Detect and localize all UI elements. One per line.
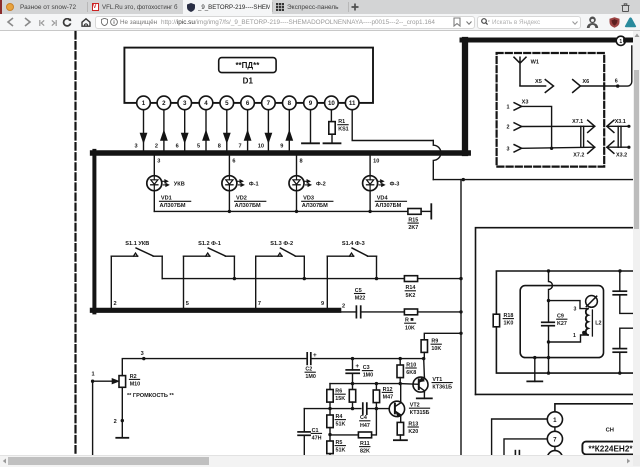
detector block bottom edge y394.4	[476, 393, 640, 395]
svg-text:K27: K27	[557, 321, 567, 327]
svg-text:51K: 51K	[336, 422, 346, 428]
wire hop over thick bus	[433, 141, 441, 180]
svg-text:8: 8	[288, 100, 292, 107]
svg-text:H47: H47	[360, 423, 370, 429]
capacitor C2 polarized	[306, 353, 308, 365]
wire pin 1 to bus	[143, 110, 145, 151]
edge capacitor upper	[619, 271, 621, 291]
junction dot VD2 common	[228, 210, 231, 213]
svg-text:S1.2 Ф-1: S1.2 Ф-1	[198, 241, 221, 247]
LED VD2 АЛ307БМ	[222, 176, 237, 191]
svg-text:9: 9	[309, 100, 313, 107]
svg-text:6K8: 6K8	[406, 370, 416, 376]
wire pin 2 to bus	[163, 110, 165, 151]
connector X7.1 arrowhead	[588, 120, 595, 132]
wire C3 to base node	[352, 373, 354, 383]
svg-text:W1: W1	[531, 60, 539, 66]
wire R10 dot to R9 dot	[400, 358, 424, 360]
tab 3 shield favicon	[187, 3, 195, 12]
wire switch right leg down	[161, 256, 163, 278]
tab 4 grid favicon	[276, 3, 284, 11]
svg-text:** ГРОМКОСТЬ **: ** ГРОМКОСТЬ **	[127, 393, 175, 399]
dashed box around antenna connectors	[497, 53, 605, 167]
wire pin 6 to bus	[247, 110, 249, 151]
potentiometer R2 body	[119, 376, 126, 388]
wire pin1 net to right edge y403.8	[555, 404, 640, 412]
wire C4 to base dot	[367, 408, 391, 410]
svg-text:10: 10	[328, 100, 335, 107]
node 2 dot	[121, 419, 124, 422]
junction dot R4 bottom	[329, 428, 331, 435]
svg-text:9: 9	[280, 144, 283, 150]
connector X6 arrow	[573, 80, 581, 93]
pin 9 of D1	[304, 96, 318, 110]
junction dot C9 bottom	[547, 340, 550, 343]
svg-text:VD4: VD4	[377, 196, 389, 202]
pot wiper arrow to R2	[93, 380, 113, 382]
svg-text:11: 11	[349, 100, 356, 107]
svg-text:2: 2	[507, 124, 510, 130]
wire R2 bottom to node 2	[121, 387, 123, 420]
capacitor C1	[303, 409, 305, 432]
wire switch left leg to bus terminal 5	[183, 256, 185, 308]
connector X7 double bars	[580, 126, 582, 147]
svg-text:9: 9	[321, 301, 324, 307]
wire node 6 hook up right edge	[618, 46, 632, 86]
svg-text:6: 6	[176, 144, 179, 150]
pin 7 of D1	[262, 96, 276, 110]
wire R9 to supply rail	[423, 352, 425, 358]
wire C9 bottom	[548, 327, 550, 342]
wire LED VD4 to common line	[369, 191, 371, 212]
capacitor C3 polarized	[352, 359, 354, 370]
connector pin circle 7	[547, 431, 562, 446]
junction dot rail bottom right	[618, 371, 621, 374]
capacitor C5	[341, 311, 356, 313]
svg-text:3: 3	[183, 100, 187, 107]
svg-text:1: 1	[91, 371, 94, 377]
transistor VT1 КТ361Б	[413, 377, 428, 392]
wire circle7 to left column	[504, 439, 547, 455]
svg-text:7: 7	[553, 436, 557, 443]
resistor R9	[421, 340, 427, 353]
arrow down on pin 3 wire	[182, 133, 188, 142]
transistor VT2 КТ315Б	[389, 401, 404, 416]
svg-text:S1.3 Ф-2: S1.3 Ф-2	[270, 241, 293, 247]
wire LED VD1 to common line	[153, 191, 155, 212]
svg-text:7: 7	[258, 301, 261, 307]
magnifier icon	[481, 18, 490, 26]
fastforward icon	[51, 20, 57, 26]
wire pin 10 to R1	[330, 110, 332, 122]
wire VT1 base	[400, 383, 419, 386]
connector pin circle 1	[547, 412, 562, 427]
wire to R9 top	[424, 333, 461, 340]
svg-text:АЛ307БМ: АЛ307БМ	[160, 203, 186, 209]
resistor R1	[329, 122, 335, 135]
svg-text:3: 3	[134, 144, 137, 150]
arrow up on pin 2 wire	[161, 131, 167, 140]
svg-text:1M0: 1M0	[363, 373, 374, 379]
wire to coil top	[549, 301, 589, 309]
pin 1 of D1	[137, 96, 151, 110]
svg-text:1: 1	[507, 104, 510, 110]
tank ground stem	[534, 358, 536, 382]
label box **ПД**	[219, 58, 276, 73]
thick top line stub right of circle	[626, 38, 633, 43]
vpn triangle icon	[624, 17, 637, 28]
browser tab bar	[0, 0, 640, 14]
thick top supply line y40	[462, 38, 616, 43]
arrow up on pin 6 wire	[244, 131, 250, 140]
wire switch right leg down	[376, 256, 378, 278]
url info icon	[110, 18, 118, 26]
svg-text:7: 7	[267, 100, 271, 107]
svg-text:**ПД**: **ПД**	[235, 61, 260, 70]
LED VD2 emission arrows	[237, 180, 240, 182]
svg-text:X3.1: X3.1	[615, 119, 626, 125]
bookmark flag icon	[453, 17, 461, 27]
link circle7 to circle5	[554, 447, 556, 451]
block name box К224ЕН2	[582, 442, 640, 455]
resistor R*	[404, 309, 417, 315]
URL field	[95, 16, 475, 29]
svg-text:M47: M47	[383, 394, 394, 400]
wire X3.2 to edge dot	[607, 146, 629, 148]
svg-text:Ф-1: Ф-1	[249, 182, 259, 188]
terminal circle 1 on top line	[616, 36, 625, 45]
svg-text:6: 6	[615, 79, 618, 85]
resistor R14	[404, 276, 417, 282]
terminal bar under R1	[324, 142, 341, 144]
svg-text:КТ361Б: КТ361Б	[432, 385, 452, 391]
connector pin circle 5	[547, 451, 562, 466]
resistor R6	[327, 390, 333, 403]
L2 core line	[591, 310, 593, 336]
svg-text:КТ315Б: КТ315Б	[410, 410, 430, 416]
wire LED VD3 to common line	[296, 191, 298, 212]
wire pin 9 down	[310, 110, 312, 144]
svg-text:10: 10	[258, 144, 264, 150]
svg-text:M22: M22	[355, 296, 366, 302]
ground below node 2	[121, 421, 123, 438]
arrow down on pin 1 wire	[140, 133, 146, 142]
pin 6 of D1	[241, 96, 255, 110]
capacitor C9	[548, 301, 550, 322]
svg-text:2: 2	[155, 144, 158, 150]
search field	[477, 16, 581, 29]
svg-text:5: 5	[225, 100, 229, 107]
wire circle1 to left column	[492, 419, 548, 455]
arrow up on pin 4 wire	[203, 131, 209, 140]
svg-text:1: 1	[619, 39, 622, 45]
svg-text:4: 4	[204, 100, 208, 107]
LED VD3 emission arrows	[305, 180, 308, 182]
IC D1 outline box	[124, 48, 373, 103]
junction dot VD4 common	[368, 210, 371, 213]
junction dot R10 top	[399, 357, 402, 360]
wire VT2 collector up	[400, 384, 402, 402]
resistor R10	[399, 359, 401, 365]
svg-text:VD3: VD3	[303, 196, 314, 202]
wire R5 bottom down	[329, 454, 331, 455]
resistor R13	[397, 422, 403, 435]
svg-text:D1: D1	[243, 76, 254, 85]
junction dot C4/R12/R11	[375, 407, 378, 410]
link circle1 to circle7	[554, 427, 556, 431]
svg-text:2: 2	[114, 301, 117, 307]
svg-text:8: 8	[300, 159, 303, 165]
svg-text:KS1: KS1	[338, 127, 349, 133]
wire bus to LED VD2	[228, 156, 230, 176]
junction dot R9/VT1	[422, 357, 425, 360]
svg-text:8: 8	[218, 144, 221, 150]
capacitor at circle5 line	[514, 451, 516, 455]
wire node3 to R2 top	[122, 359, 144, 376]
svg-text:УКВ: УКВ	[174, 182, 185, 188]
junction dot rail top right	[618, 269, 621, 272]
wire hop to node	[433, 179, 463, 181]
thick shield bus top horizontal y153	[93, 150, 469, 156]
connector X7.2 arrowhead	[588, 141, 595, 153]
inner rail top y271	[496, 271, 633, 314]
LED VD1 emission arrows	[162, 180, 165, 182]
junction dot y383 C3	[351, 382, 354, 385]
url shield icon	[101, 18, 108, 26]
svg-text:СН: СН	[606, 428, 614, 434]
switch S1.4	[327, 255, 353, 257]
back arrow	[6, 17, 15, 27]
active tab	[183, 0, 272, 14]
wire switch left leg to bus terminal 7	[255, 256, 257, 308]
junction dot C3 tap	[351, 357, 354, 360]
svg-text:2: 2	[342, 303, 345, 309]
terminal bar under pin 9	[302, 142, 319, 144]
svg-text:1: 1	[553, 417, 557, 424]
connector X3.1 arrowhead	[607, 120, 614, 132]
wire VT1 collector to bar	[423, 392, 425, 398]
pin 11 of D1	[345, 96, 359, 110]
svg-text:47H: 47H	[312, 435, 322, 441]
svg-text:5: 5	[197, 144, 200, 150]
svg-text:1K0: 1K0	[504, 321, 514, 327]
ground bar in tank box	[527, 380, 542, 382]
wire C9 bottom to tank box bottom	[548, 342, 550, 358]
new tab +	[351, 3, 359, 11]
terminal bar under VT1	[417, 397, 432, 399]
wire pin 8 to bus	[288, 110, 290, 151]
switch S1.2	[184, 255, 210, 257]
junction dot rail bottom C9 column	[547, 371, 550, 374]
refresh icon	[62, 18, 72, 27]
svg-text:S1.4 Ф-3: S1.4 Ф-3	[342, 241, 365, 247]
pin 5 of D1	[220, 96, 234, 110]
svg-text:3: 3	[507, 147, 510, 153]
profile icon	[586, 16, 599, 28]
svg-text:M10: M10	[130, 381, 141, 387]
wire R* to node	[418, 311, 461, 313]
wire switch left leg to bus terminal 2	[110, 256, 112, 308]
tab 2 favicon	[92, 3, 99, 11]
LED VD1 АЛ307БМ	[147, 176, 162, 191]
home icon	[81, 18, 91, 27]
tab 1 favicon	[6, 3, 14, 11]
connector X3 right double bars	[617, 126, 619, 147]
resistor R15	[408, 209, 421, 215]
trash icon	[621, 3, 630, 12]
vertical net x461 from y180	[460, 180, 462, 455]
resistor R4	[329, 409, 331, 415]
connector X3.2 arrowhead	[607, 141, 614, 153]
terminal bar right of R15	[430, 204, 432, 218]
svg-text:X3.2: X3.2	[616, 153, 627, 159]
switch output line y278	[162, 278, 461, 280]
junction dot VT1 base node	[399, 382, 402, 385]
wire bus to LED VD4	[369, 156, 371, 176]
switch S1.1	[111, 255, 137, 257]
svg-text:АЛ307БМ: АЛ307БМ	[375, 203, 401, 209]
svg-text:Ф-2: Ф-2	[316, 182, 326, 188]
svg-text:2K7: 2K7	[408, 225, 418, 231]
horizontal scrollbar	[0, 455, 640, 467]
svg-text:15K: 15K	[335, 396, 345, 402]
svg-text:S1.1 УКВ: S1.1 УКВ	[125, 241, 149, 247]
node at x463 y180	[462, 178, 465, 181]
junction dot R* right	[459, 310, 462, 313]
junction dot R7 bottom	[351, 407, 354, 410]
wire X3 pin1 to junction	[522, 106, 552, 148]
wire C2 to C3 junction	[311, 358, 353, 360]
LED VD4 emission arrows	[378, 180, 381, 182]
resistor R7 middle	[352, 384, 354, 390]
junction dot tank box bottom	[547, 356, 550, 359]
junction dot S1.3 out	[303, 277, 306, 280]
junction dot y333	[459, 332, 462, 335]
junction dot C9 top	[547, 299, 550, 302]
junction dot VD3 common	[295, 210, 298, 213]
svg-text:X7.1: X7.1	[572, 119, 583, 125]
svg-text:1: 1	[573, 333, 576, 339]
node 6 dot	[616, 84, 619, 87]
svg-text:**К224ЕН2*: **К224ЕН2*	[588, 444, 633, 453]
svg-text:7: 7	[239, 144, 242, 150]
svg-text:10: 10	[373, 159, 379, 165]
wire R15 to terminal	[421, 210, 431, 212]
svg-text:X7.2: X7.2	[573, 153, 584, 159]
url dropdown caret	[466, 21, 472, 25]
resistor R5	[329, 435, 331, 441]
wire switch left leg to bus terminal 9	[326, 256, 328, 308]
inner rail bottom y373	[496, 327, 633, 373]
tank circuit box	[520, 286, 603, 358]
node 1 dot	[91, 380, 94, 383]
antenna W1	[514, 57, 526, 86]
resistor R18	[493, 314, 499, 327]
pin 2 of D1	[157, 96, 171, 110]
svg-text:+: +	[355, 363, 359, 370]
wire bus to LED VD3	[296, 156, 298, 176]
junction dot R12 top	[375, 382, 378, 385]
wire X6 to node 6	[580, 85, 617, 87]
wire pin 11 down and right	[352, 110, 433, 141]
thick shield left vertical x94.4	[92, 151, 96, 313]
LED common line to R15	[154, 210, 408, 212]
svg-text:1: 1	[142, 100, 146, 107]
svg-text:L2: L2	[595, 320, 601, 326]
wire tank bottom to rail	[548, 358, 550, 374]
wire LED VD2 to common line	[228, 191, 230, 212]
svg-text:X5: X5	[535, 79, 542, 85]
svg-text:3: 3	[141, 351, 144, 357]
junction dot X3 net	[550, 147, 553, 150]
wire R11 to C4 node	[372, 409, 377, 435]
svg-text:51K: 51K	[336, 448, 346, 454]
wire R1 to bar	[331, 134, 333, 143]
wire VT2 emitter to R13	[400, 416, 402, 422]
arrow down on pin 7 wire	[265, 133, 271, 142]
forward arrow	[23, 17, 32, 27]
svg-text:АЛ307БМ: АЛ307БМ	[302, 203, 328, 209]
junction dot R6 bottom	[328, 407, 331, 410]
pin 4 of D1	[199, 96, 213, 110]
schematic page left dashed border	[74, 32, 76, 454]
svg-text:X6: X6	[582, 79, 589, 85]
thick shield right vertical x465	[462, 40, 468, 153]
wire X3 pin3 to X7.2	[522, 147, 595, 148]
wire rail to C9 with hop over box	[549, 271, 553, 301]
wire VT1 emitter up to rail	[423, 359, 426, 378]
svg-text:6: 6	[232, 159, 235, 165]
node line y408.6	[304, 408, 361, 410]
LED VD3 АЛ307БМ	[289, 176, 304, 191]
switch S1.3	[256, 255, 282, 257]
svg-text:5K2: 5K2	[406, 293, 416, 299]
junction dot rail top C9	[547, 269, 550, 272]
edge capacitor lower	[620, 328, 633, 348]
wire pin 3 to bus	[184, 110, 186, 151]
junction dot R14 right	[459, 277, 462, 280]
junction dot S1.4 out	[375, 277, 378, 280]
resistor R11 horizontal	[330, 434, 358, 436]
svg-text:Ф-3: Ф-3	[390, 182, 400, 188]
svg-text:3: 3	[574, 306, 577, 312]
thick shield bottom bus y310	[92, 308, 338, 313]
arrow down on pin 5 wire	[224, 133, 230, 142]
svg-text:10K: 10K	[405, 325, 415, 331]
wire pin 5 to bus	[226, 110, 228, 151]
svg-text:R: R	[405, 317, 409, 323]
vertical scrollbar	[633, 31, 640, 455]
browser toolbar	[0, 14, 640, 31]
inductor L2 coil	[586, 309, 588, 335]
svg-text:3: 3	[157, 159, 160, 165]
L2 adjustment screw symbol	[586, 296, 598, 308]
node 3 dot	[142, 357, 145, 360]
wire C5 to R*	[361, 311, 405, 313]
svg-text:K20: K20	[408, 429, 418, 435]
wire pin 7 to bus	[267, 110, 269, 151]
wire node to right edge y180	[463, 179, 633, 181]
wire X3 pin2 to X7.1	[522, 125, 595, 127]
svg-text:2: 2	[162, 100, 166, 107]
junction dot S1.2 out	[233, 277, 236, 280]
wire C1 bottom down	[303, 435, 305, 455]
svg-text:1M0: 1M0	[305, 374, 316, 380]
wire W1 to X5	[520, 85, 546, 87]
svg-text:82K: 82K	[360, 449, 370, 455]
arrow up on pin 8 wire	[286, 131, 292, 140]
rewind icon	[39, 20, 45, 26]
